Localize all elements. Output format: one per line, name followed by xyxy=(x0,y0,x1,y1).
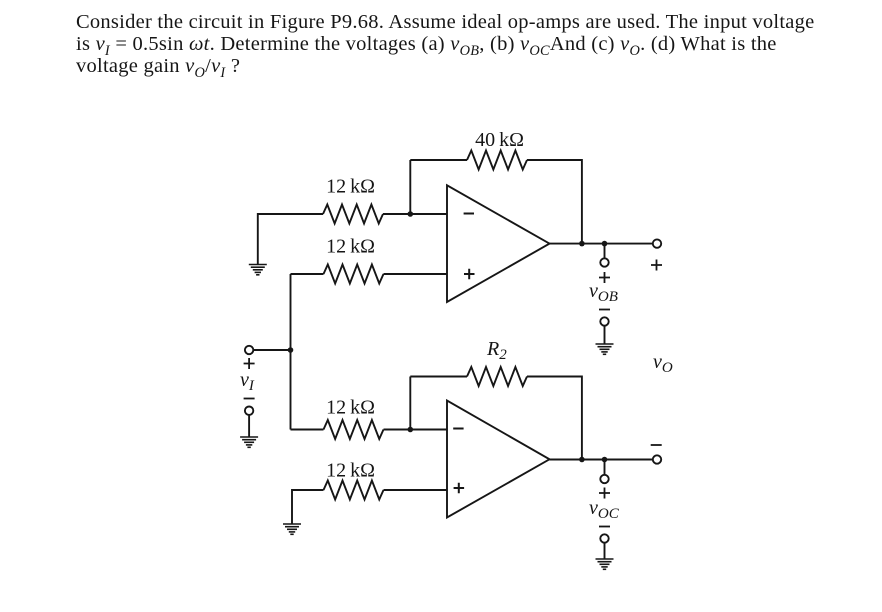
wire: R2-12k left horizontal (op-amp B non-inverting) xyxy=(291,273,324,275)
terminal: vI input circle xyxy=(245,346,253,354)
terminal: vI bottom circle xyxy=(245,407,253,415)
resistor RF 40 kOhm (feedback, op-amp B) xyxy=(467,151,527,170)
node: vOC tap junction xyxy=(602,457,608,463)
node: vOB tap junction xyxy=(602,241,608,247)
wire: ground stub to R4 left (bottom op-amp non-inverting) xyxy=(292,490,324,524)
node: vI junction xyxy=(288,347,294,353)
polarity plus (output B right) xyxy=(651,260,662,271)
wire: vOC tap stub xyxy=(604,460,606,475)
op-amp U2 (C) triangle xyxy=(447,401,550,518)
wire: to op-amp B non-inverting input xyxy=(384,273,448,275)
op-amp U1 plus sign xyxy=(464,269,475,279)
svg-text:vO: vO xyxy=(653,351,673,376)
wire: feedback left vertical (node to R2) xyxy=(409,377,411,430)
wire: R4 right to op-amp C non-inverting input xyxy=(384,489,448,491)
wire: ground stub to R1 left (top op-amp inverting input network) xyxy=(258,214,323,265)
polarity minus (vI) xyxy=(244,398,255,400)
node: output feedback junction (op-amp C) xyxy=(579,457,585,463)
resistor R4 12 kOhm (bottom op-amp non-inverting input) xyxy=(324,481,384,500)
svg-text:12 kΩ: 12 kΩ xyxy=(326,176,375,198)
resistor R2 (feedback, op-amp C) xyxy=(467,367,527,386)
wire: vertical from R2 left down to vI node, spanning non-inv R left xyxy=(290,274,292,430)
svg-text:12 kΩ: 12 kΩ xyxy=(326,460,375,482)
polarity plus (vI) xyxy=(244,358,255,369)
svg-text:vOB: vOB xyxy=(589,280,618,305)
polarity minus (vOC) xyxy=(599,526,610,528)
svg-text:R2: R2 xyxy=(486,338,507,363)
node: output feedback junction (op-amp B) xyxy=(579,241,585,247)
op-amp U1 minus sign xyxy=(464,213,474,215)
resistor R3 12 kOhm (bottom op-amp inverting input) xyxy=(324,420,384,439)
wire: feedback left vertical (node to 40k) xyxy=(409,160,411,214)
wire: vI bottom circle to ground xyxy=(248,415,250,437)
terminal: vOC top circle xyxy=(600,475,608,483)
polarity plus (vOC) xyxy=(599,488,610,499)
wire: vI to node xyxy=(253,349,290,351)
svg-text:12 kΩ: 12 kΩ xyxy=(326,397,375,419)
terminal: vOB bottom circle xyxy=(600,317,608,325)
wire: feedback top left segment (R2) xyxy=(410,376,467,378)
wire: vertical node to R3 left horizontal (bottom op-amp inverting) xyxy=(291,429,324,431)
op-amp U1 (B) triangle xyxy=(447,185,550,302)
wire: feedback top left segment xyxy=(410,159,467,161)
terminal: output B right open circle xyxy=(653,239,661,247)
ground (below vOC) xyxy=(596,559,614,569)
terminal: vOC bottom circle xyxy=(600,534,608,542)
node: inverting summing junction of op-amp B xyxy=(408,211,414,217)
svg-text:12 kΩ: 12 kΩ xyxy=(326,236,375,258)
polarity minus (vOB) xyxy=(599,309,610,311)
ground (below vI) xyxy=(240,437,258,447)
terminal: output C right open circle xyxy=(653,455,661,463)
ground (below vOB) xyxy=(596,344,614,354)
svg-text:vI: vI xyxy=(240,369,255,394)
wire: vOC bottom circle to ground xyxy=(604,543,606,559)
svg-text:40 kΩ: 40 kΩ xyxy=(475,129,524,151)
wire: R1 right to op-amp B inverting input xyxy=(383,213,447,215)
op-amp U2 minus sign xyxy=(453,428,463,430)
wire: vOB bottom circle to ground xyxy=(604,326,606,344)
ground (bottom non-inverting network) xyxy=(283,524,301,534)
op-amp U2 plus sign xyxy=(454,483,465,493)
wire: feedback top right segment and right vertical down to output xyxy=(527,160,582,244)
wire: R2 right segment and vertical down to output xyxy=(527,377,582,460)
wire: op-amp C output line xyxy=(550,459,653,461)
terminal: vOB top circle xyxy=(600,258,608,266)
wire: R3 right to op-amp C inverting input xyxy=(384,429,448,431)
ground (top-left, inverting network) xyxy=(249,265,267,275)
resistor R1 12 kOhm (top op-amp inverting input) xyxy=(323,205,383,224)
wire: op-amp B output line xyxy=(550,243,653,245)
svg-text:vOC: vOC xyxy=(589,497,620,522)
wire: vOB tap stub xyxy=(604,244,606,259)
resistor R2b 12 kOhm (top op-amp non-inverting input) xyxy=(324,265,384,284)
polarity plus (vOB) xyxy=(599,272,610,283)
node: inverting summing junction of op-amp C xyxy=(408,427,414,433)
polarity minus (output C right) xyxy=(651,444,662,446)
